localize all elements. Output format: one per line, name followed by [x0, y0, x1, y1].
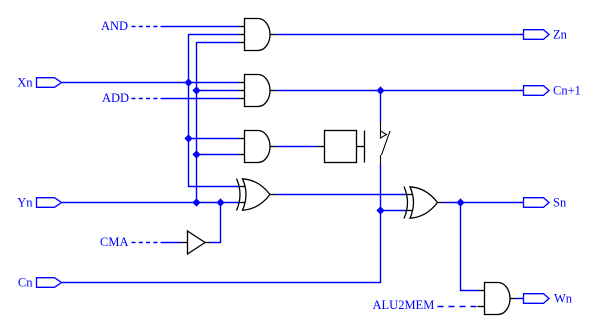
- svg-text:CMA: CMA: [100, 235, 128, 249]
- svg-text:Sn: Sn: [553, 195, 567, 209]
- svg-text:Wn: Wn: [554, 291, 573, 305]
- svg-text:Cn+1: Cn+1: [553, 83, 581, 97]
- svg-text:ADD: ADD: [102, 91, 129, 105]
- svg-text:Yn: Yn: [17, 195, 33, 209]
- svg-text:Cn: Cn: [18, 275, 33, 289]
- svg-text:AND: AND: [101, 19, 128, 33]
- svg-text:Zn: Zn: [553, 27, 568, 41]
- svg-text:Xn: Xn: [17, 75, 33, 89]
- svg-text:ALU2MEM: ALU2MEM: [373, 298, 435, 312]
